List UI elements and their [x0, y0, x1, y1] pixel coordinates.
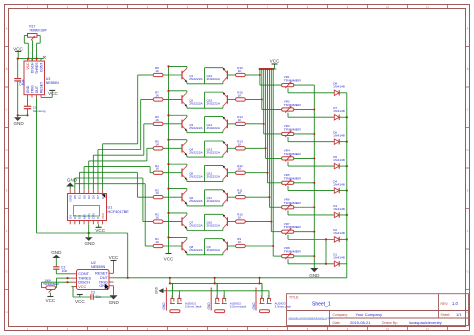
- svg-text:VCC: VCC: [46, 298, 56, 303]
- svg-text:1K: 1K: [155, 240, 159, 244]
- svg-text:B: B: [6, 67, 8, 71]
- svg-text:B: B: [467, 67, 469, 71]
- svg-text:1K: 1K: [238, 118, 242, 122]
- svg-text:1K: 1K: [238, 167, 242, 171]
- svg-text:GND: GND: [252, 302, 256, 310]
- svg-text:1K: 1K: [238, 93, 242, 97]
- svg-text:Drawn By:: Drawn By:: [382, 321, 398, 325]
- svg-text:VCC: VCC: [109, 255, 119, 260]
- svg-text:NE555N: NE555N: [46, 81, 59, 85]
- svg-text:TRIG: TRIG: [30, 85, 34, 93]
- svg-text:1K: 1K: [155, 118, 159, 122]
- svg-text:1NF: 1NF: [22, 79, 26, 85]
- svg-text:GND: GND: [309, 273, 320, 278]
- svg-text:1K: 1K: [238, 240, 242, 244]
- svg-text:TITLE:: TITLE:: [289, 296, 299, 300]
- svg-text:2N2222A: 2N2222A: [189, 175, 203, 179]
- svg-text:2N2222A: 2N2222A: [189, 77, 203, 81]
- svg-text:RESET: RESET: [39, 82, 43, 93]
- svg-text:VCC: VCC: [95, 228, 105, 233]
- svg-text:1N4148: 1N4148: [333, 133, 345, 137]
- svg-text:G: G: [467, 270, 469, 274]
- svg-text:O6: O6: [92, 195, 96, 199]
- svg-text:O3: O3: [101, 195, 105, 199]
- svg-text:1K: 1K: [155, 142, 159, 146]
- svg-text:2N2222A: 2N2222A: [207, 199, 221, 203]
- svg-text:1/1: 1/1: [456, 312, 462, 317]
- svg-text:Sheet:: Sheet:: [441, 313, 451, 317]
- svg-text:RESET: RESET: [95, 272, 108, 276]
- svg-text:2N2222A: 2N2222A: [207, 224, 221, 228]
- svg-text:O9: O9: [68, 215, 72, 219]
- svg-text:G: G: [6, 270, 8, 274]
- svg-text:THRES: THRES: [35, 62, 39, 74]
- svg-text:O2: O2: [87, 195, 91, 199]
- svg-text:3.5mm jack: 3.5mm jack: [275, 305, 292, 309]
- svg-text:TRIMMER 330PF: TRIMMER 330PF: [29, 28, 47, 32]
- svg-text:Sheet_1: Sheet_1: [312, 301, 331, 307]
- svg-text:O0: O0: [82, 195, 86, 199]
- svg-text:O1: O1: [78, 195, 82, 199]
- svg-text:H: H: [6, 310, 8, 314]
- svg-text:2019-08-21: 2019-08-21: [350, 320, 371, 325]
- svg-text:GND: GND: [51, 250, 62, 255]
- svg-text:1N4148: 1N4148: [333, 109, 345, 113]
- svg-text:O8: O8: [78, 215, 82, 219]
- svg-text:1K: 1K: [155, 191, 159, 195]
- svg-text:VCC: VCC: [26, 62, 30, 70]
- svg-text:TRIMMER: TRIMMER: [284, 127, 302, 131]
- svg-text:1K: 1K: [238, 191, 242, 195]
- svg-text:GND: GND: [26, 85, 30, 93]
- svg-text:2N2222A: 2N2222A: [189, 126, 203, 130]
- svg-text:1N4148: 1N4148: [333, 256, 345, 260]
- svg-text:2N2222A: 2N2222A: [207, 175, 221, 179]
- svg-text:CP0: CP0: [92, 213, 96, 219]
- svg-text:1K: 1K: [155, 167, 159, 171]
- svg-text:REV:: REV:: [441, 302, 449, 306]
- svg-text:GND: GND: [13, 121, 24, 126]
- svg-text:2N2222A: 2N2222A: [189, 150, 203, 154]
- svg-text:GND: GND: [207, 302, 211, 310]
- svg-text:1N4148: 1N4148: [333, 85, 345, 89]
- svg-text:VCC: VCC: [164, 256, 174, 261]
- svg-text:O5: O5: [73, 195, 77, 199]
- svg-text:1K: 1K: [238, 69, 242, 73]
- svg-text:1K: 1K: [155, 69, 159, 73]
- svg-text:D: D: [6, 148, 8, 152]
- svg-text:TRIMMER: TRIMMER: [43, 282, 60, 286]
- svg-text:A: A: [6, 27, 8, 31]
- svg-text:TRIMMER: TRIMMER: [284, 79, 302, 83]
- svg-text:Date:: Date:: [333, 321, 341, 325]
- svg-text:Your Company: Your Company: [356, 312, 382, 317]
- svg-text:2N2222A: 2N2222A: [189, 199, 203, 203]
- svg-text:O7: O7: [96, 195, 100, 199]
- svg-text:VCC: VCC: [48, 91, 58, 96]
- svg-text:GND: GND: [109, 300, 120, 305]
- svg-text:E: E: [467, 189, 469, 193]
- svg-text:HCF4017BE: HCF4017BE: [108, 210, 130, 214]
- svg-text:GND: GND: [68, 194, 72, 202]
- svg-text:GND: GND: [155, 286, 159, 294]
- svg-text:VCC: VCC: [78, 285, 86, 289]
- svg-text:3.5mm jack: 3.5mm jack: [230, 305, 247, 309]
- svg-text:TRIMMER: TRIMMER: [284, 152, 302, 156]
- svg-text:lucaspaulcleverley: lucaspaulcleverley: [409, 320, 442, 325]
- svg-text:DISCH: DISCH: [30, 62, 34, 73]
- svg-text:1K: 1K: [238, 142, 242, 146]
- svg-text:C: C: [467, 108, 469, 112]
- svg-text:2N2222A: 2N2222A: [207, 150, 221, 154]
- svg-text:OUT: OUT: [35, 86, 39, 93]
- svg-text:D: D: [467, 148, 469, 152]
- svg-text:1K: 1K: [238, 216, 242, 220]
- svg-text:1K: 1K: [155, 93, 159, 97]
- svg-text:Samsung: Samsung: [33, 109, 46, 113]
- svg-text:2N2222A: 2N2222A: [189, 101, 203, 105]
- svg-text:VCC: VCC: [13, 46, 23, 51]
- svg-text:O4: O4: [73, 215, 77, 219]
- svg-text:CP1: CP1: [87, 213, 91, 219]
- svg-text:VCC: VCC: [75, 299, 85, 304]
- svg-text:VCC: VCC: [101, 212, 105, 219]
- svg-text:1N4148: 1N4148: [333, 231, 345, 235]
- svg-text:NE555N: NE555N: [91, 265, 106, 269]
- svg-text:2N2222A: 2N2222A: [207, 77, 221, 81]
- svg-text:2N2222A: 2N2222A: [189, 224, 203, 228]
- svg-text:1N4148: 1N4148: [333, 207, 345, 211]
- svg-text:1N4148: 1N4148: [333, 158, 345, 162]
- svg-text:easyeda.com/lucaspaulcleverley: easyeda.com/lucaspaulcleverley explore: [289, 317, 334, 320]
- svg-text:MR: MR: [82, 214, 86, 219]
- svg-text:VCC: VCC: [270, 59, 280, 64]
- svg-text:GND: GND: [84, 241, 95, 246]
- svg-text:TRIMMER: TRIMMER: [284, 103, 302, 107]
- svg-text:2N2222A: 2N2222A: [207, 101, 221, 105]
- svg-text:1N4148: 1N4148: [333, 182, 345, 186]
- svg-text:GND: GND: [162, 302, 166, 310]
- svg-text:2N2222A: 2N2222A: [207, 126, 221, 130]
- svg-text:1.0: 1.0: [452, 301, 458, 306]
- svg-text:10u: 10u: [62, 269, 68, 273]
- svg-text:C3: C3: [91, 291, 95, 295]
- svg-text:3.5mm Jack: 3.5mm Jack: [185, 305, 202, 309]
- svg-text:CONT: CONT: [39, 63, 43, 73]
- svg-text:TRIMMER: TRIMMER: [284, 201, 302, 205]
- svg-text:TRIMMER: TRIMMER: [284, 250, 302, 254]
- svg-text:A: A: [467, 27, 469, 31]
- svg-text:DISCH: DISCH: [78, 281, 90, 285]
- svg-text:TRIMMER: TRIMMER: [284, 176, 302, 180]
- svg-text:C: C: [6, 108, 8, 112]
- svg-text:TRIMMER: TRIMMER: [284, 225, 302, 229]
- svg-text:E: E: [6, 189, 8, 193]
- svg-text:Company:: Company:: [333, 313, 349, 317]
- svg-text:2N2222A: 2N2222A: [207, 248, 221, 252]
- svg-text:2N2222A: 2N2222A: [189, 248, 203, 252]
- svg-text:1K: 1K: [155, 216, 159, 220]
